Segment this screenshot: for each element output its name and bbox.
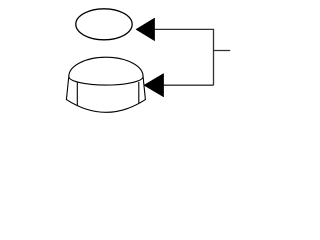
cylinder inner left edge <box>76 83 78 106</box>
arrowhead to cylinder <box>144 74 164 97</box>
wire top horizontal <box>154 28 214 30</box>
cylinder inner right edge <box>138 82 140 104</box>
wire right vertical <box>213 29 215 85</box>
wire stub <box>214 50 231 52</box>
wire bottom horizontal <box>163 84 213 86</box>
arrowhead to oval <box>136 18 155 41</box>
cylinder body silhouette <box>66 77 145 113</box>
oval node <box>76 9 132 40</box>
cylinder top face <box>69 57 143 85</box>
